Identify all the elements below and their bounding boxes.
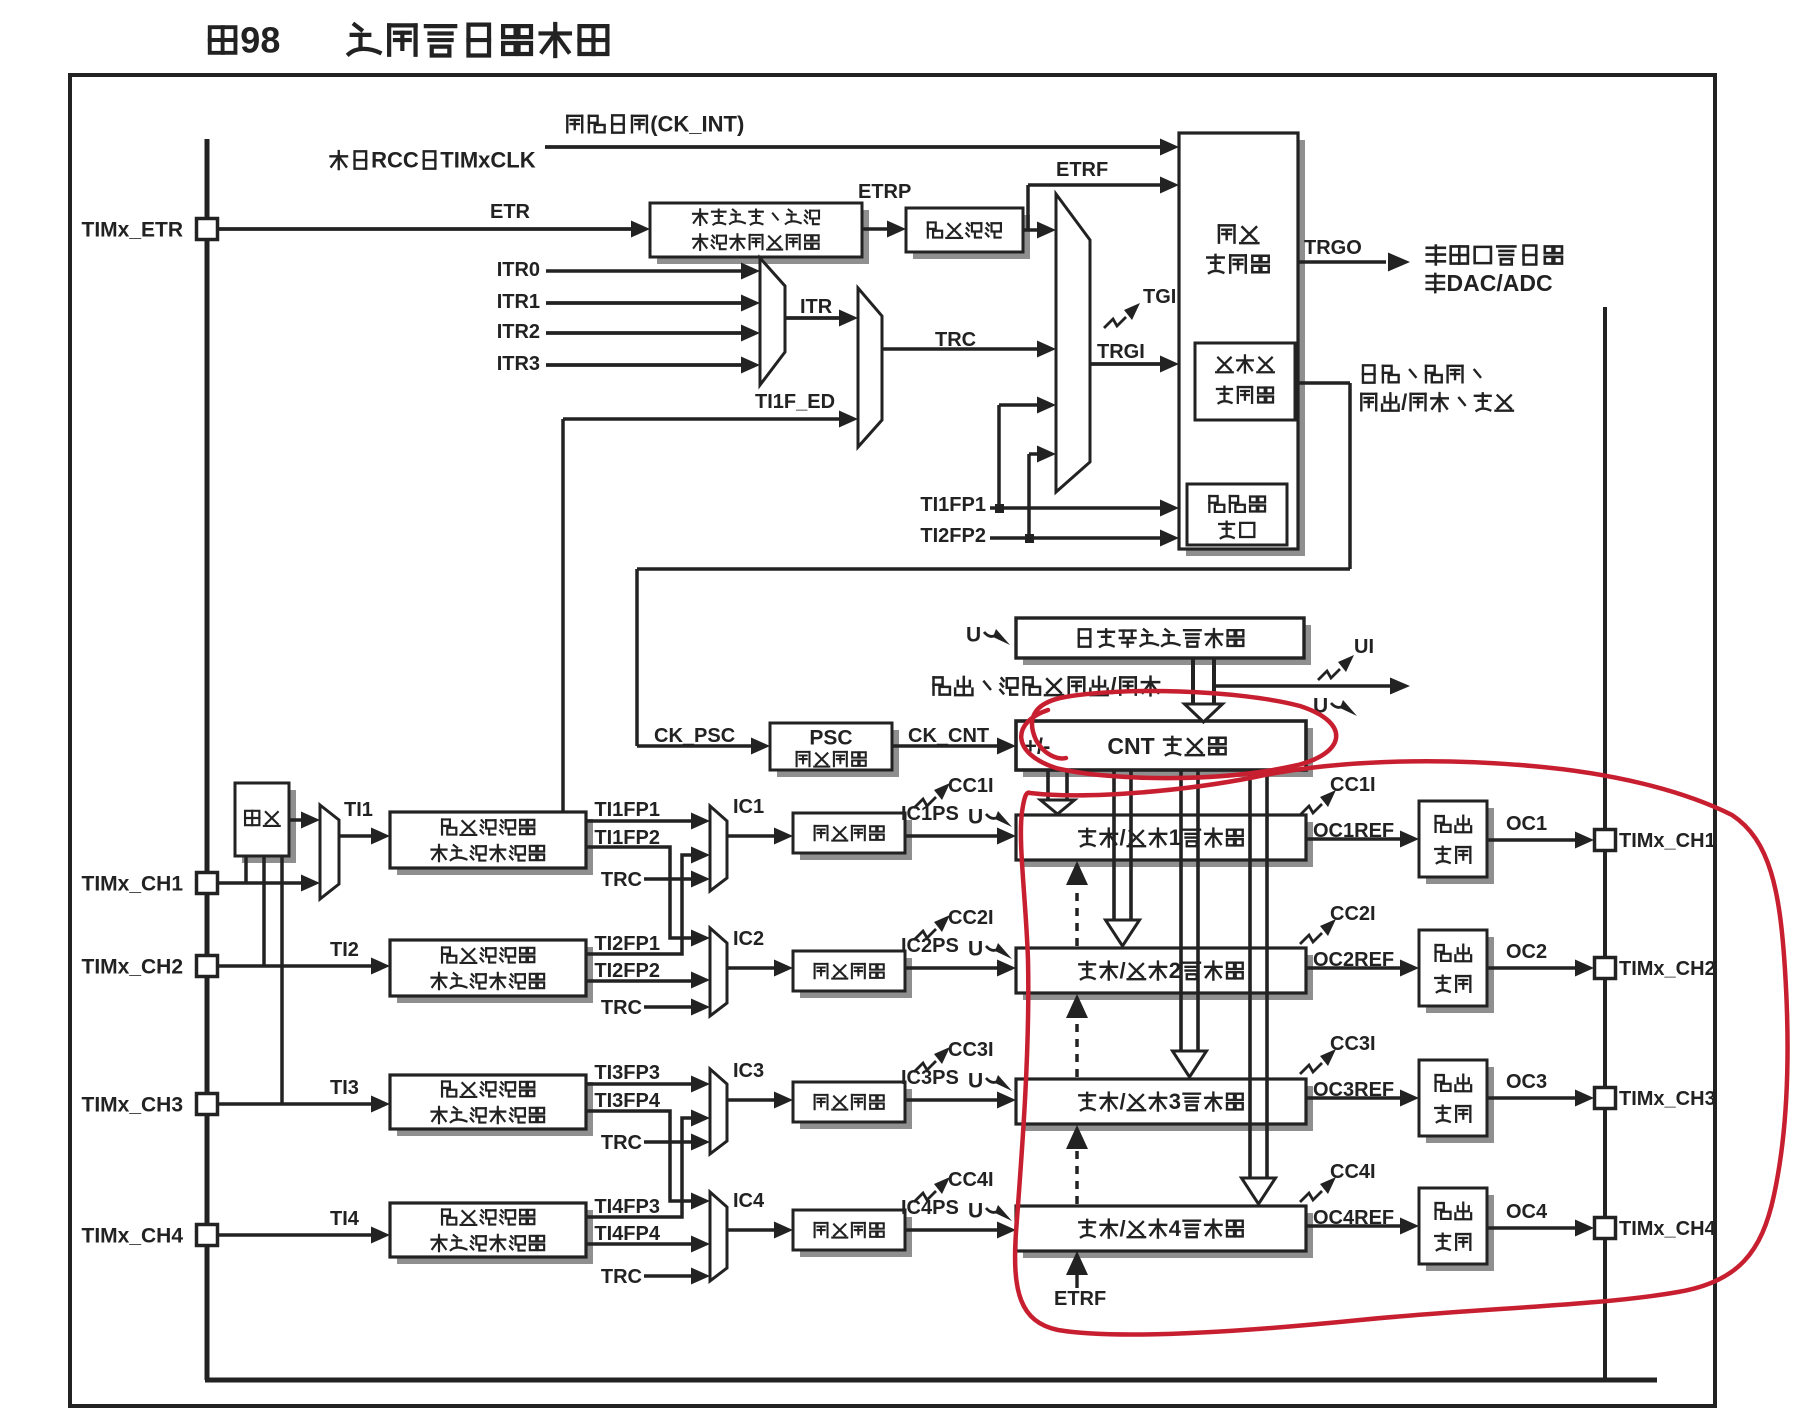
text 自动重装载寄存器 (1079, 629, 1244, 647)
text 接口 (1219, 522, 1254, 539)
wire IC4PS to capture register (905, 1228, 999, 1231)
squiggle event UI (1318, 669, 1340, 680)
text 和边沿检测器 ch3 (431, 1107, 544, 1124)
wire TI2FP2 branch up to TRGI mux (1027, 454, 1031, 538)
pad TIMx_CH4 (197, 1225, 218, 1246)
wire ETRF solid up into capture4 (1075, 1274, 1078, 1288)
box: capture/compare register 1 (1023, 822, 1313, 867)
svg-text:U: U (968, 806, 983, 829)
squiggle event CC3I right (1300, 1063, 1322, 1074)
svg-text:RCC: RCC (371, 148, 419, 173)
label CC1I left (948, 775, 994, 797)
wire TI3FP4 down to IC4 mux (586, 1111, 700, 1201)
box: auto-reload register 自动重装载寄存器 (1023, 625, 1311, 665)
label 来自RCC的TIMxCLK (330, 148, 535, 173)
svg-text:TGI: TGI (1143, 286, 1176, 308)
wire CH1 to TI1 mux (218, 881, 311, 885)
label TRGO (1304, 237, 1362, 259)
box: capture/compare register 4 (1023, 1213, 1313, 1258)
wire CK_PSC into PSC (637, 744, 753, 748)
svg-text:CC3I: CC3I (1330, 1033, 1376, 1055)
svg-text:ITR0: ITR0 (497, 259, 540, 281)
pad TIMx_CH3 (197, 1094, 218, 1115)
label TI4 (330, 1208, 360, 1230)
label TI1 (344, 799, 373, 821)
svg-text:U: U (968, 938, 983, 961)
red annotation: big loop around capture/compare area (1015, 761, 1787, 1334)
text 极性选择、边沿 (693, 209, 819, 225)
text 预分频器 (PSC) (797, 752, 866, 767)
wire: bottom bus horizontal (205, 1378, 1657, 1383)
svg-text:DAC/ADC: DAC/ADC (1447, 270, 1553, 296)
wire XOR output to TI1 mux (289, 818, 311, 822)
wire OC2REF to output control (1306, 966, 1402, 969)
wire ITR to TRC mux (785, 316, 841, 320)
label TI4FP3 (594, 1196, 660, 1218)
label TIMx_CH2 (left) (82, 955, 184, 978)
wire TI1FP1 to IC1 mux (586, 819, 700, 823)
wire TI1FP1 branch up to TRGI mux (997, 405, 1001, 508)
svg-text:CC3I: CC3I (948, 1039, 994, 1061)
text 控制 ch4 (1435, 1234, 1470, 1251)
label OC1 (1506, 813, 1547, 835)
mux: IC4 selector (710, 1192, 727, 1281)
wire ETRF dashed up into capture2 (1075, 1020, 1079, 1077)
label TI3FP4 (594, 1090, 660, 1112)
squiggle event CC1I right (1300, 804, 1322, 815)
label CC2I left (948, 907, 994, 929)
text 预分频器 ch4 (815, 1223, 884, 1238)
text 从模式 (1216, 355, 1274, 372)
label OC2REF (1313, 949, 1394, 971)
wire OC1 to pad (1487, 838, 1577, 842)
svg-text:TRGO: TRGO (1304, 237, 1362, 259)
box: slave mode controller 从模式控制器 (1195, 343, 1295, 420)
mux: TI1 selector (320, 805, 339, 899)
text 停止、清除或向上/向下 (934, 673, 1160, 699)
text 捕获/比较1寄存器 (1079, 825, 1242, 850)
mux: IC2 selector (710, 928, 727, 1016)
svg-text:/: / (1401, 390, 1407, 415)
box: PSC prescaler (777, 730, 899, 777)
hollow arrow CNT to capture3 (1179, 770, 1183, 1053)
svg-text:TI4FP3: TI4FP3 (594, 1196, 660, 1218)
label CC3I right (1330, 1033, 1376, 1055)
label IC1PS (901, 803, 959, 825)
hollow arrow CNT to capture1 (1046, 770, 1050, 802)
text 预分频器 ch3 (815, 1095, 884, 1110)
label TRGI (1097, 341, 1145, 363)
wire TRGO output (1298, 260, 1386, 263)
wire TRC to TRGI mux (882, 347, 1039, 350)
wire OC1REF to output control (1306, 837, 1402, 840)
text 输入滤波器 ch1 (442, 819, 534, 834)
svg-text:TRC: TRC (601, 997, 642, 1019)
text 控制 ch1 (1435, 847, 1470, 864)
text CNT 计数器 (1107, 733, 1225, 759)
text PSC (809, 726, 852, 749)
svg-text:CC1I: CC1I (1330, 774, 1376, 796)
label IC4 (733, 1190, 765, 1212)
label OC3 (1506, 1071, 1547, 1093)
svg-text:/: / (1120, 958, 1126, 983)
text 输出 ch4 (1436, 1203, 1472, 1220)
wire TI3FP3 to IC3 mux (586, 1082, 700, 1086)
label TRC ch3 (601, 1132, 642, 1154)
box: prescaler 预分频器 ch4 (800, 1217, 912, 1257)
svg-text:TRGI: TRGI (1097, 341, 1145, 363)
svg-text:TI3FP3: TI3FP3 (594, 1062, 660, 1084)
text 编码器 (1209, 496, 1265, 512)
pad TIMx_CH1 (197, 873, 218, 894)
mux: TRC selector (858, 288, 882, 447)
label TI1FP1 (594, 799, 660, 821)
svg-text:TIMx_ETR: TIMx_ETR (82, 218, 184, 241)
label TI1FP2 (594, 827, 660, 849)
svg-text:TIMx_CH1: TIMx_CH1 (1619, 830, 1716, 852)
wire ETR to polarity box (218, 227, 633, 231)
svg-text:TIMx_CH3: TIMx_CH3 (82, 1093, 184, 1116)
wire XOR input from CH2 (262, 856, 266, 966)
wire: right pin bus vertical (1603, 307, 1607, 1382)
svg-text:IC4: IC4 (733, 1190, 765, 1212)
wire slave mode controller to CK_PSC (1295, 381, 1350, 385)
svg-text:IC2PS: IC2PS (901, 935, 959, 957)
svg-text:TI4: TI4 (330, 1208, 360, 1230)
svg-text:TI3FP4: TI3FP4 (594, 1090, 660, 1112)
squiggle event CC3I left (914, 1061, 936, 1072)
squiggle event CC4I right (1300, 1191, 1322, 1202)
text 控制器 (1207, 255, 1268, 273)
svg-text:TI3: TI3 (330, 1077, 359, 1099)
wire TI4 into input filter 4 (218, 1233, 373, 1237)
svg-text:CC2I: CC2I (948, 907, 994, 929)
svg-text:4: 4 (1169, 1216, 1182, 1241)
box: encoder interface 编码器接口 (1187, 484, 1287, 545)
label IC2PS (901, 935, 959, 957)
svg-text:IC1: IC1 (733, 796, 764, 818)
pad TIMx_CH4 right (1595, 1218, 1616, 1239)
label OC3REF (1313, 1079, 1394, 1101)
label TIMx_CH1 (left) (82, 872, 184, 895)
mux: ITR selector (760, 258, 785, 385)
svg-text:ETR: ETR (490, 201, 531, 223)
wire TRC into IC2 mux (644, 1005, 700, 1009)
label ETRF bottom (1054, 1288, 1106, 1310)
label TI4FP4 (594, 1223, 660, 1245)
wire ITR0 into ITR mux (546, 269, 743, 273)
box: CNT counter (1023, 728, 1313, 777)
pad TIMx_CH3 right (1595, 1088, 1616, 1109)
label TGI (1143, 286, 1176, 308)
label 内部时钟 (CK_INT) (567, 112, 744, 137)
label TIMx_CH3 (right) (1619, 1088, 1716, 1110)
svg-text:U: U (968, 1200, 983, 1223)
box: output control 输出控制 ch2 (1426, 937, 1494, 1013)
svg-text:IC4PS: IC4PS (901, 1197, 959, 1219)
text 控制 ch2 (1435, 976, 1470, 993)
box: input filter & edge detector ch3 (397, 1082, 593, 1136)
text 捕获/比较4寄存器 (1079, 1216, 1242, 1241)
label TI3FP3 (594, 1062, 660, 1084)
text 预分频器 ch1 (815, 826, 884, 841)
wire OC4REF to output control (1306, 1224, 1402, 1227)
label OC1REF (1313, 820, 1394, 842)
box: 输入滤波 input filter (913, 215, 1030, 259)
text 输入滤波器 ch2 (442, 947, 534, 962)
squiggle event TGI (1104, 317, 1126, 328)
label CK_PSC (654, 725, 735, 747)
wire TI2FP1 up to IC1 mux (586, 855, 700, 954)
svg-text:ITR3: ITR3 (497, 353, 540, 375)
hollow arrow CNT to capture4 (1248, 770, 1252, 1180)
label TI1FP1 (encoder input) (920, 494, 986, 516)
wire ETRP to input filter (862, 227, 889, 231)
label ETR (490, 201, 531, 223)
box: input filter & edge detector ch1 (397, 819, 593, 875)
text 输入滤波器 ch4 (442, 1209, 534, 1224)
svg-text:OC2: OC2 (1506, 941, 1547, 963)
label UI (1354, 636, 1374, 658)
wire XOR input from CH3 (280, 856, 284, 1104)
svg-text:ITR2: ITR2 (497, 321, 540, 343)
text 输出 ch1 (1436, 816, 1472, 833)
label TI1F_ED (755, 391, 835, 413)
text 至其它定时器 (1427, 246, 1562, 265)
label ITR1 (497, 291, 540, 313)
pad TIMx_CH1 right (1595, 830, 1616, 851)
svg-text:OC4: OC4 (1506, 1201, 1548, 1223)
wire TI2FP2 to IC2 mux (586, 979, 700, 983)
label OC4REF (1313, 1207, 1394, 1229)
label CK_CNT (908, 725, 989, 747)
svg-text:/: / (1120, 1089, 1126, 1114)
hollow arrow CNT to capture2 (1112, 770, 1116, 922)
label TI3 (330, 1077, 359, 1099)
label TI2FP2 (encoder input) (920, 525, 986, 547)
label IC1 (733, 796, 764, 818)
text 和边沿检测器 ch4 (431, 1235, 544, 1252)
svg-text:TIMxCLK: TIMxCLK (440, 148, 535, 173)
wire XOR input from CH1 (244, 856, 248, 883)
svg-text:CK_PSC: CK_PSC (654, 725, 735, 747)
svg-text:TI4FP4: TI4FP4 (594, 1223, 660, 1245)
wire IC2 to prescaler (727, 966, 776, 970)
box: input filter & edge detector ch2 (397, 947, 593, 1003)
wire TI1 into input filter 1 (339, 834, 373, 838)
label CC2I right (1330, 903, 1376, 925)
wire ETRF branch up to trigger controller (1026, 185, 1030, 230)
wire OC4 to pad (1487, 1226, 1577, 1230)
label TIMx_CH4 (right) (1619, 1218, 1717, 1240)
wire CK_CNT into CNT counter (892, 744, 999, 748)
text 捕获/比较3寄存器 (1079, 1089, 1242, 1114)
wire TI1FP1 to encoder interface (990, 506, 1170, 510)
red annotation: ellipse around CNT counter (1021, 691, 1336, 778)
text 输入滤波器 ch3 (442, 1081, 534, 1096)
svg-text:IC3: IC3 (733, 1060, 764, 1082)
label TI2FP1 (594, 933, 660, 955)
mux: IC1 selector (710, 806, 727, 891)
svg-text:TI2: TI2 (330, 939, 359, 961)
box: prescaler 预分频器 ch3 (800, 1089, 912, 1129)
svg-text:CC1I: CC1I (948, 775, 994, 797)
svg-text:TI1FP1: TI1FP1 (920, 494, 986, 516)
box: capture/compare register 2 (1023, 955, 1313, 1000)
svg-text:ITR: ITR (800, 296, 833, 318)
label CC4I left (948, 1169, 994, 1191)
svg-text:/: / (1120, 825, 1126, 850)
wire IC4 to prescaler (727, 1228, 776, 1232)
svg-text:ITR1: ITR1 (497, 291, 540, 313)
svg-text:CC4I: CC4I (1330, 1161, 1376, 1183)
label TI2FP2 (594, 960, 660, 982)
label TIMx_CH4 (left) (82, 1224, 184, 1247)
label ETRF (1056, 159, 1108, 181)
wire IC3PS to capture register (905, 1098, 999, 1101)
title: main caption 通用定时器框图 (349, 24, 608, 56)
svg-text:2: 2 (1169, 958, 1181, 983)
wire TI2FP2 to encoder interface (990, 536, 1170, 540)
svg-text:CC2I: CC2I (1330, 903, 1376, 925)
svg-text:ETRF: ETRF (1054, 1288, 1106, 1310)
label IC3PS (901, 1067, 959, 1089)
label ITR0 (497, 259, 540, 281)
svg-text:CC4I: CC4I (948, 1169, 994, 1191)
svg-text:TI2FP2: TI2FP2 (920, 525, 986, 547)
box: input filter & edge detector ch4 (397, 1210, 593, 1264)
svg-text:98: 98 (240, 20, 280, 61)
wire TRC into IC4 mux (644, 1274, 700, 1278)
text 控制 ch3 (1435, 1106, 1470, 1123)
text 检测和预分频器 (693, 234, 819, 250)
svg-text:TIMx_CH1: TIMx_CH1 (82, 872, 184, 895)
pad TIMx_CH2 right (1595, 958, 1616, 979)
squiggle event CC2I left (914, 929, 936, 940)
svg-text:IC2: IC2 (733, 928, 764, 950)
svg-text:ETRF: ETRF (1056, 159, 1108, 181)
label TRC ch1 (601, 869, 642, 891)
text 复位、使能、 (1363, 365, 1480, 382)
mux: IC3 selector (710, 1069, 727, 1154)
box: XOR 异或 (242, 790, 296, 863)
text 控制器 (slave) (1217, 387, 1273, 404)
svg-text:(CK_INT): (CK_INT) (650, 112, 744, 137)
svg-text:PSC: PSC (809, 726, 852, 749)
squiggle event CC2I right (1300, 933, 1322, 944)
label CC3I left (948, 1039, 994, 1061)
wire TI3 into input filter 3 (218, 1102, 373, 1106)
label TRC ch4 (601, 1266, 642, 1288)
wire TI1FP2 down to IC2 mux (586, 847, 700, 938)
text 输入滤波 (928, 222, 1001, 237)
wire IC2PS to capture register (905, 966, 999, 969)
title: figure number (210, 20, 281, 61)
label TRC ch2 (601, 997, 642, 1019)
label CC4I right (1330, 1161, 1376, 1183)
wire TRC into IC1 mux (644, 877, 700, 881)
text 触发 (1219, 225, 1258, 243)
svg-text:TIMx_CH2: TIMx_CH2 (1619, 958, 1716, 980)
text 和边沿检测器 ch2 (431, 973, 544, 990)
wire IC3 to prescaler (727, 1098, 776, 1102)
wire OC3REF to output control (1306, 1096, 1402, 1099)
wire OC2 to pad (1487, 966, 1577, 970)
wire ETRF to TRGI mux (1023, 228, 1047, 232)
text 输出 ch2 (1436, 945, 1472, 962)
label OC2 (1506, 941, 1547, 963)
box: output control 输出控制 ch1 (1426, 808, 1494, 884)
hollow arrow ARR to CNT (1191, 658, 1195, 704)
wire ETRF dashed up into capture1 (1075, 888, 1079, 946)
box: prescaler 预分频器 ch1 (800, 820, 912, 860)
svg-text:TRC: TRC (601, 1132, 642, 1154)
text 向上/向下、计数 (1361, 390, 1513, 415)
label OC4 (1506, 1201, 1548, 1223)
svg-text:3: 3 (1169, 1089, 1181, 1114)
svg-text:TI2FP1: TI2FP1 (594, 933, 660, 955)
svg-text:TRC: TRC (601, 869, 642, 891)
label IC3 (733, 1060, 764, 1082)
wire CK_INT into trigger controller (545, 145, 1162, 149)
text 至 DAC/ADC (1427, 270, 1553, 296)
pad TIMx_CH2 (197, 956, 218, 977)
text 输出 ch3 (1436, 1075, 1472, 1092)
text 预分频器 ch2 (815, 964, 884, 979)
wire TI1F_ED from input filter 1 up to TRC mux (561, 419, 565, 812)
wire TRGI into trigger controller (1090, 362, 1162, 366)
svg-text:TRC: TRC (601, 1266, 642, 1288)
label TIMx_CH1 (right) (1619, 830, 1716, 852)
svg-text:TIMx_CH4: TIMx_CH4 (82, 1224, 184, 1247)
wire ITR3 into ITR mux (546, 363, 743, 367)
label ETRP (858, 181, 911, 203)
svg-text:U: U (968, 1070, 983, 1093)
svg-text:TI2FP2: TI2FP2 (594, 960, 660, 982)
svg-text:CK_CNT: CK_CNT (908, 725, 989, 747)
text 异或 (245, 811, 280, 826)
svg-text:1: 1 (1169, 825, 1181, 850)
wire TI4FP4 to IC4 mux (586, 1242, 700, 1245)
wire ETRF dashed up into capture3 (1075, 1150, 1079, 1204)
label ITR (800, 296, 833, 318)
svg-text:/: / (1110, 673, 1117, 699)
svg-text:/: / (1120, 1216, 1126, 1241)
svg-text:TI1F_ED: TI1F_ED (755, 391, 835, 413)
svg-text:TIMx_CH4: TIMx_CH4 (1619, 1218, 1717, 1240)
wire TI4FP3 up to IC3 mux (586, 1118, 700, 1217)
svg-text:TI1FP1: TI1FP1 (594, 799, 660, 821)
svg-text:OC3: OC3 (1506, 1071, 1547, 1093)
label ITR2 (497, 321, 540, 343)
squiggle event CC1I left (914, 797, 936, 808)
svg-text:OC1: OC1 (1506, 813, 1547, 835)
wire update event to right (1216, 684, 1390, 688)
label IC2 (733, 928, 764, 950)
box: trigger controller 触发控制器 (1186, 140, 1305, 556)
label TIMx_CH2 (right) (1619, 958, 1716, 980)
label IC4PS (901, 1197, 959, 1219)
wire IC1PS to capture register (905, 834, 999, 837)
text +/- (1024, 734, 1050, 759)
label TIMx_ETR (82, 218, 184, 241)
wire: left pin bus vertical (205, 139, 210, 1380)
box: output control 输出控制 ch3 (1426, 1067, 1494, 1143)
wire TRC into IC3 mux (644, 1140, 700, 1144)
svg-text:ETRP: ETRP (858, 181, 911, 203)
svg-text:TI1: TI1 (344, 799, 373, 821)
svg-text:IC1PS: IC1PS (901, 803, 959, 825)
